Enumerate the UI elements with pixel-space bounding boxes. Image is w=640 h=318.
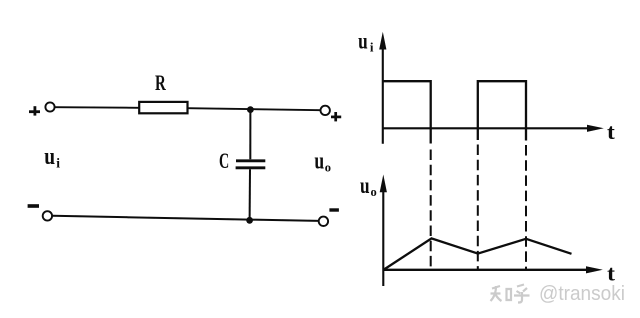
svg-text:R: R (155, 70, 167, 95)
svg-text:u: u (360, 173, 370, 198)
terminal circle (output bottom) (319, 217, 328, 226)
capacitor C plates (236, 161, 266, 168)
svg-text:t: t (607, 119, 616, 144)
watermark zhihu glyph zhi (491, 286, 512, 301)
wire capacitor top lead (249, 110, 251, 160)
axis t horizontal (top graph) (383, 125, 604, 132)
terminal plus sign (output top) (331, 112, 341, 121)
waveform square pulse 2 (478, 81, 526, 140)
axis uo vertical (bottom graph) (380, 175, 387, 287)
terminal plus sign (input top) (29, 106, 40, 115)
axis ui vertical (top graph) (379, 32, 386, 144)
node junction (bottom) (246, 217, 253, 224)
wire top-left (55, 106, 139, 109)
dashed line 3 (525, 145, 527, 270)
terminal circle (output top) (321, 106, 330, 115)
label ui (circuit input voltage) (44, 144, 60, 171)
dashed line 1 (430, 150, 432, 270)
label uo (bottom graph axis) (360, 173, 377, 199)
label ui (top graph axis) (358, 28, 374, 54)
resistor R (139, 102, 187, 113)
svg-text:i: i (56, 156, 60, 171)
terminal circle (input bottom) (43, 211, 52, 220)
waveform uo triangular (384, 238, 572, 269)
dashed line 2 (477, 145, 479, 270)
terminal circle (input top) (45, 102, 54, 111)
wire bottom (53, 216, 319, 221)
waveform square pulse 1 (383, 81, 431, 143)
svg-text:u: u (44, 144, 55, 170)
label uo (circuit output voltage) (314, 149, 331, 175)
svg-text:@transoki: @transoki (539, 282, 625, 305)
watermark zhihu glyph hu (514, 285, 530, 303)
terminal minus sign (output bottom) (329, 208, 339, 211)
wire capacitor bottom lead (249, 169, 251, 220)
svg-text:o: o (325, 161, 331, 175)
svg-text:u: u (358, 28, 368, 53)
node junction (top) (247, 106, 254, 113)
wire top-right (188, 108, 321, 110)
svg-text:i: i (370, 40, 374, 55)
svg-text:C: C (219, 148, 229, 173)
svg-text:u: u (314, 149, 324, 175)
axis t horizontal (bottom graph) (383, 266, 603, 273)
terminal minus sign (input bottom) (28, 204, 39, 208)
svg-text:o: o (371, 185, 377, 199)
